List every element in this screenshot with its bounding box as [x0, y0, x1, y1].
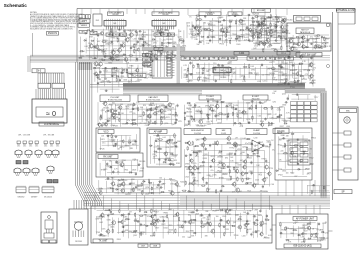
capacitor C60: [96, 76, 100, 78]
resistor R17: [134, 49, 135, 54]
wire: [106, 135, 131, 137]
wire: [283, 107, 285, 124]
svg-text:2SC460: 2SC460: [263, 42, 269, 44]
resistor R151: [218, 162, 223, 163]
capacitor C184: [250, 233, 252, 237]
svg-text:NJM2902: NJM2902: [18, 197, 25, 199]
capacitor C132: [258, 141, 260, 145]
resistor R53: [295, 37, 300, 38]
wire: [288, 38, 320, 40]
svg-text:220: 220: [281, 61, 284, 63]
wire: [273, 66, 275, 77]
transistor Q1: [99, 31, 103, 36]
svg-text:220: 220: [116, 117, 119, 119]
svg-text:R545: R545: [168, 190, 172, 192]
svg-text:C608: C608: [93, 48, 97, 50]
svg-text:0.01: 0.01: [282, 38, 285, 40]
resistor R7: [169, 32, 170, 37]
wire: [183, 30, 185, 59]
relay contact 3: [290, 153, 298, 157]
wire: [250, 31, 279, 33]
svg-text:R882: R882: [190, 230, 194, 232]
wire: [193, 146, 195, 191]
capacitor C148: [206, 181, 208, 185]
svg-text:TP724: TP724: [268, 168, 273, 170]
svg-text:R192: R192: [125, 106, 129, 108]
transistor Q11: [144, 52, 149, 58]
svg-text:C56: C56: [136, 102, 139, 104]
resistor R108: [161, 120, 162, 125]
RX label: [98, 155, 118, 159]
wire: [236, 19, 238, 42]
capacitor C67: [202, 71, 204, 75]
wire: [227, 196, 229, 210]
wire: [284, 21, 286, 41]
capacitor C80: [176, 104, 178, 108]
svg-text:ECB: ECB: [27, 157, 30, 159]
transistor Q203: [247, 27, 251, 32]
svg-text:L947: L947: [192, 177, 196, 179]
IC U2 top DIP: [152, 19, 176, 30]
TX unit bottom box: [91, 206, 272, 243]
bus wire: [123, 91, 202, 93]
diode D48: [113, 145, 117, 147]
svg-text:TP422: TP422: [254, 73, 259, 75]
wire: [239, 68, 241, 78]
wire: [188, 184, 270, 186]
svg-text:0.01: 0.01: [242, 138, 246, 140]
connector J2 label box: [86, 15, 91, 19]
final PA transistor box: [69, 209, 88, 245]
DC-DC outer box: [275, 128, 312, 180]
wire: [292, 42, 328, 44]
svg-text:TP17: TP17: [314, 97, 319, 99]
svg-text:Q907: Q907: [133, 235, 137, 237]
wire: [260, 193, 262, 210]
capacitor C149: [262, 185, 264, 189]
diode D38: [114, 110, 118, 112]
capacitor C9: [111, 34, 115, 36]
wire: [90, 34, 177, 36]
capacitor C75: [288, 82, 290, 86]
svg-text:R514: R514: [282, 229, 286, 231]
wire: [252, 214, 254, 238]
legend chip 2: [23, 161, 28, 164]
resistor R28: [170, 57, 171, 62]
wire: [241, 19, 243, 39]
svg-text:TX: TX: [212, 58, 215, 60]
svg-text:L95: L95: [277, 108, 280, 110]
svg-text:C193: C193: [107, 188, 111, 190]
wire: [154, 142, 156, 164]
capacitor C74: [283, 82, 287, 84]
capacitor C159: [228, 209, 232, 211]
svg-text:Q744: Q744: [325, 233, 329, 235]
diode D33: [114, 67, 118, 69]
wire: [219, 193, 221, 210]
antenna switch label: [296, 53, 322, 57]
svg-text:D177: D177: [148, 121, 152, 123]
svg-text:100: 100: [238, 41, 241, 43]
capacitor C158: [195, 209, 199, 211]
resistor R96: [100, 114, 101, 119]
svg-text:ECB: ECB: [16, 175, 19, 177]
svg-text:X57-1100: X57-1100: [206, 98, 214, 100]
wire: [105, 67, 107, 80]
svg-text:L630: L630: [155, 139, 159, 141]
bus wire: [76, 62, 85, 206]
diode D68: [189, 182, 193, 184]
svg-text:C314: C314: [131, 47, 135, 49]
svg-text:VCO: VCO: [104, 131, 109, 133]
diode D61: [185, 142, 189, 144]
wire: [96, 188, 160, 190]
capacitor C47: [248, 39, 250, 43]
resistor R63: [275, 24, 276, 29]
wire: [137, 105, 139, 126]
svg-text:220: 220: [281, 151, 284, 153]
wire: [221, 103, 223, 123]
svg-text:R674: R674: [154, 220, 158, 222]
transistor Q98: [210, 228, 215, 234]
vco unit section label: [228, 12, 242, 16]
capacitor C185: [255, 231, 259, 233]
capacitor C110: [114, 143, 118, 145]
svg-text:220: 220: [196, 64, 199, 66]
svg-text:C212: C212: [261, 18, 265, 20]
transistor Q8: [110, 49, 115, 55]
resistor R52: [316, 35, 321, 36]
wire: [279, 64, 281, 83]
svg-text:ECB: ECB: [54, 157, 57, 159]
capacitor C77: [97, 82, 99, 86]
svg-text:R67: R67: [279, 140, 282, 142]
legend part pictogram 1: [17, 141, 21, 148]
legend transistor package 3: [35, 150, 42, 159]
wire: [231, 68, 233, 78]
svg-text:C56: C56: [256, 22, 259, 24]
svg-text:47u: 47u: [118, 114, 121, 116]
svg-text:D752: D752: [219, 36, 223, 38]
wire: [153, 135, 176, 137]
wire: [108, 9, 110, 15]
diode D3: [83, 40, 87, 42]
wire: [185, 196, 187, 210]
svg-text:100: 100: [271, 75, 274, 77]
svg-text:TP698: TP698: [238, 37, 243, 39]
transistor Q14: [123, 57, 128, 63]
diode D30: [282, 31, 286, 33]
svg-text:TP948: TP948: [271, 49, 276, 51]
bus wire: [123, 88, 305, 90]
connector pin comb B: [74, 200, 87, 209]
svg-text:SQ: SQ: [193, 58, 196, 60]
wire: [232, 104, 234, 126]
svg-text:1S1555: 1S1555: [272, 19, 278, 21]
diode D6: [143, 41, 147, 43]
svg-text:L835: L835: [197, 172, 201, 174]
wire: [153, 182, 155, 195]
svg-text:TP622: TP622: [278, 175, 283, 177]
wire: [196, 68, 288, 70]
capacitor C166: [246, 212, 250, 214]
wire: [272, 108, 274, 120]
resistor R133: [167, 160, 172, 161]
svg-text:L683: L683: [100, 82, 104, 84]
wire: [189, 102, 191, 126]
wire: [99, 9, 101, 15]
wire: [102, 108, 104, 119]
capacitor C131: [251, 142, 253, 146]
svg-text:220: 220: [213, 68, 216, 70]
mixer section label: [216, 129, 231, 135]
bus wire: [92, 62, 102, 206]
svg-text:100: 100: [286, 172, 289, 174]
transistor Q75: [187, 165, 192, 171]
wire: [251, 103, 253, 122]
svg-text:R50: R50: [278, 145, 281, 147]
resistor R69: [144, 62, 145, 67]
wire: [281, 24, 283, 48]
svg-text:TP798: TP798: [219, 177, 224, 179]
svg-text:2SC460: 2SC460: [304, 141, 310, 143]
wire: [213, 65, 215, 81]
bus wire: [84, 192, 330, 194]
svg-text:0.022: 0.022: [115, 105, 119, 107]
capacitor C100: [193, 118, 195, 122]
diode D83: [193, 232, 197, 234]
resistor R103: [119, 118, 120, 123]
wire: [278, 82, 306, 84]
wire: [235, 67, 237, 80]
capacitor C27: [156, 57, 158, 61]
wire: [171, 181, 173, 194]
resistor R88: [299, 75, 304, 76]
diode D52: [154, 151, 158, 153]
resistor R143: [192, 141, 193, 146]
filter F1: [296, 17, 302, 21]
svg-text:D249: D249: [280, 67, 284, 69]
svg-text:0.022: 0.022: [302, 151, 306, 153]
resistor R107: [154, 120, 155, 125]
diode D37: [112, 67, 116, 69]
wire: [237, 100, 239, 122]
svg-text:Q95: Q95: [177, 186, 181, 188]
svg-text:TP679: TP679: [289, 82, 294, 84]
svg-text:C169: C169: [222, 216, 226, 218]
wire: [85, 38, 87, 54]
wire: [215, 103, 217, 121]
transistor Q69: [202, 136, 206, 142]
wire: [105, 40, 159, 42]
bus wire: [80, 62, 89, 206]
wire: [222, 24, 224, 43]
svg-text:R144: R144: [112, 72, 116, 74]
svg-text:IF AMP: IF AMP: [253, 129, 260, 132]
wire: [155, 104, 157, 125]
transistor Q60: [120, 181, 125, 187]
svg-text:Q434: Q434: [241, 76, 245, 78]
wire: [126, 9, 128, 15]
svg-text:L317: L317: [190, 32, 194, 34]
resistor R149: [196, 151, 197, 156]
wire: [201, 178, 251, 180]
wire: [119, 201, 121, 210]
wire: [99, 59, 175, 61]
transistor Q74: [242, 159, 246, 165]
transistor Q40: [298, 54, 302, 60]
capacitor C39: [275, 26, 279, 28]
terminal T2 wire: [333, 144, 345, 146]
capacitor C73: [291, 64, 295, 66]
node junction circle B: [327, 65, 330, 68]
wire: [127, 204, 129, 210]
resistor R42: [245, 29, 250, 30]
svg-text:TP496: TP496: [309, 38, 314, 40]
wire: [191, 149, 264, 151]
svg-text:Q629: Q629: [267, 114, 271, 116]
svg-text:100: 100: [216, 216, 219, 218]
capacitor C68: [215, 79, 217, 83]
capacitor C174: [219, 219, 223, 221]
capacitor C103: [264, 117, 266, 121]
capacitor C1: [91, 29, 95, 31]
wire: [155, 209, 157, 231]
diode D62: [192, 151, 196, 153]
svg-text:1S1555: 1S1555: [202, 80, 208, 82]
wire: [207, 215, 209, 232]
capacitor C25: [136, 57, 138, 61]
svg-text:Q288: Q288: [201, 68, 205, 70]
transistor Q23: [265, 31, 270, 37]
transistor Q9: [117, 47, 122, 53]
wire: [107, 215, 109, 237]
wire: [266, 108, 268, 119]
wire: [197, 151, 199, 186]
capacitor C105: [247, 122, 251, 124]
svg-text:2SC460: 2SC460: [139, 161, 145, 163]
svg-text:100: 100: [262, 74, 265, 76]
diode D25: [305, 46, 309, 48]
wire: [257, 211, 259, 237]
wire: [279, 161, 308, 163]
svg-text:L66: L66: [168, 114, 171, 116]
capacitor C96: [235, 108, 239, 110]
svg-text:D526: D526: [126, 219, 130, 221]
resistor R141: [160, 192, 165, 193]
pin label box U2-c: [168, 33, 175, 36]
svg-text:ECB: ECB: [49, 173, 52, 175]
diode D50: [174, 142, 178, 144]
svg-text:1S1555: 1S1555: [172, 154, 178, 156]
resistor R54: [324, 36, 325, 41]
resistor R105: [131, 123, 136, 124]
svg-text:R469: R469: [326, 38, 330, 40]
transistor Q71: [232, 141, 237, 147]
resistor R100: [153, 113, 158, 114]
capacitor C146: [251, 172, 253, 176]
bus shade bottom: [180, 196, 330, 205]
svg-text:1S1555: 1S1555: [102, 40, 108, 42]
resistor R59: [254, 16, 259, 17]
diode D23: [306, 39, 310, 41]
capacitor C95: [194, 104, 196, 108]
svg-text:.047: .047: [162, 184, 165, 186]
capacitor C6: [156, 29, 160, 31]
wire: [189, 153, 191, 192]
svg-text:VR97: VR97: [192, 107, 197, 109]
relay coil 2: [300, 148, 308, 152]
transistor Q15: [238, 18, 243, 24]
transistor Q45: [109, 108, 114, 114]
svg-text:MC145106: MC145106: [44, 197, 52, 199]
svg-text:100: 100: [128, 68, 131, 70]
diode D35: [116, 75, 120, 77]
note part label box: [47, 32, 59, 36]
svg-text:Q850: Q850: [166, 43, 170, 45]
capacitor C10: [118, 33, 120, 37]
resistor R38: [206, 29, 211, 30]
resistor R11: [120, 44, 121, 49]
svg-text:R170: R170: [266, 140, 270, 142]
svg-text:ECB: ECB: [34, 175, 37, 177]
svg-text:0.022: 0.022: [208, 23, 212, 25]
resistor R173: [139, 208, 140, 213]
svg-text:TP526: TP526: [100, 148, 105, 150]
wire: [117, 218, 119, 234]
capacitor C180: [222, 226, 226, 228]
transistor Q13: [109, 56, 114, 62]
svg-text:C618: C618: [237, 165, 241, 167]
wire: [107, 135, 109, 147]
capacitor C150: [219, 190, 223, 192]
resistor R4: [164, 29, 169, 30]
svg-text:C76: C76: [207, 75, 210, 77]
svg-text:R19: R19: [143, 105, 146, 107]
svg-text:VR7: VR7: [97, 41, 101, 43]
capacitor C91: [216, 101, 220, 103]
transistor Q10: [149, 47, 153, 53]
resistor R50: [260, 32, 261, 37]
capacitor C130: [209, 144, 211, 148]
transistor Q90: [150, 214, 154, 220]
resistor R87: [271, 68, 276, 69]
transistor Q21: [259, 27, 263, 33]
band label B: [277, 52, 290, 55]
VCO label: [98, 130, 114, 134]
capacitor C70: [288, 55, 290, 59]
wire: [116, 67, 118, 78]
svg-text:R943: R943: [96, 65, 100, 67]
wire: [90, 9, 92, 15]
diode D51: [149, 145, 153, 147]
bus wire: [123, 83, 305, 85]
capacitor C54: [258, 43, 260, 47]
shaded band left segment: [142, 47, 185, 50]
capacitor C58: [120, 72, 124, 74]
capacitor C66: [189, 73, 193, 75]
wire: [272, 56, 314, 58]
wire: [111, 177, 113, 191]
wire: [100, 81, 119, 83]
svg-text:47u: 47u: [272, 149, 275, 151]
diode D18: [274, 30, 278, 32]
svg-text:47u: 47u: [154, 109, 157, 111]
svg-text:ECB: ECB: [37, 157, 40, 159]
resistor R95: [156, 106, 157, 111]
svg-text:Q503: Q503: [198, 167, 202, 169]
svg-text:0.01: 0.01: [82, 51, 85, 53]
